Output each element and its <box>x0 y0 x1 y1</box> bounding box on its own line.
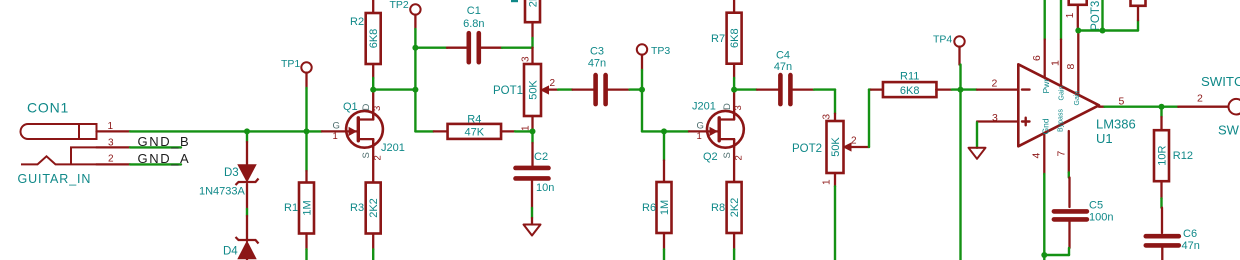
wire C5 top lead (pin lead) <box>1068 178 1070 208</box>
wire U1 pin1 (pin lead) <box>1060 40 1062 87</box>
wire C1 right lead (pin lead) <box>481 47 502 49</box>
svg-text:8: 8 <box>1065 64 1077 70</box>
wire wiper riser <box>868 90 870 147</box>
wire Q1 gate pin (pin lead) <box>322 130 358 132</box>
wire R4 row left <box>415 130 433 132</box>
wire R1 bottom lead (pin lead) <box>305 234 307 250</box>
wire Q2 gate pin (pin lead) <box>689 130 719 132</box>
svg-text:C5: C5 <box>1089 200 1103 212</box>
wire C1 right wire <box>502 47 533 49</box>
svg-text:Gnd: Gnd <box>1040 118 1050 134</box>
wire R11 right lead (pin lead) <box>936 88 952 90</box>
wire POT1 pin1 lead (pin lead) <box>531 116 533 131</box>
resistor R6 <box>657 182 672 233</box>
ground GND below C2 <box>524 225 541 236</box>
svg-text:SW1: SW1 <box>1218 123 1240 138</box>
svg-text:1: 1 <box>1050 60 1062 66</box>
minus symbol of U1 <box>1022 88 1030 90</box>
node POT3 node (junction) <box>1075 28 1081 34</box>
wire C6 top lead (pin lead) <box>1161 208 1163 233</box>
wire output wire <box>1105 105 1179 107</box>
svg-text:R11: R11 <box>900 71 919 83</box>
svg-text:2: 2 <box>851 136 857 147</box>
wire R1 bottom wire <box>305 249 307 260</box>
wire CON1 pin1 lead (pin lead) <box>97 130 131 132</box>
wire U1 pin7 (pin lead) <box>1068 131 1070 173</box>
wire node to R13 column <box>1103 29 1139 31</box>
wire R13 riser <box>1137 20 1139 30</box>
wire D3-D4 link <box>246 209 248 216</box>
wire R5 bottom lead (pin lead) <box>531 22 533 38</box>
wire Q1 source to R3 (pin lead) <box>372 139 374 182</box>
wire R2 bottom lead (pin lead) <box>372 64 374 78</box>
wire TP2 pin (pin lead) <box>414 15 416 29</box>
svg-text:2: 2 <box>108 154 114 165</box>
wire D4 bottom lead (pin lead) <box>246 258 248 260</box>
wire R4 left lead (pin lead) <box>434 130 448 132</box>
wire C1 left wire <box>415 47 447 49</box>
svg-text:47K: 47K <box>465 127 485 139</box>
wire Q1 drain lead (pin lead) <box>372 90 374 120</box>
svg-text:POT3: POT3 <box>1090 1 1102 31</box>
potentiometer POT2 <box>827 121 852 173</box>
svg-text:2: 2 <box>550 78 556 89</box>
svg-text:2: 2 <box>1197 93 1203 105</box>
svg-text:POT1: POT1 <box>493 85 523 97</box>
wire U1 pin4 (pin lead) <box>1043 133 1045 174</box>
wire R6 bottom wire <box>663 249 665 260</box>
wire C2 bottom lead (pin lead) <box>531 181 533 208</box>
svg-text:Pwr: Pwr <box>1041 79 1051 94</box>
label R5 fragment <box>511 0 518 2</box>
resistor R11 <box>883 82 937 97</box>
wire SW1 pin lead (pin lead) <box>1178 106 1228 108</box>
svg-text:Q2: Q2 <box>703 151 718 163</box>
wire POT2 wiper lead (pin lead) <box>851 146 870 148</box>
wire TP3 to node <box>641 70 643 90</box>
svg-text:47n: 47n <box>774 61 792 73</box>
svg-text:Gain: Gain <box>1074 91 1081 106</box>
wire POT2 pin3 lead (pin lead) <box>834 114 836 121</box>
wire net GND_A stub <box>130 163 181 165</box>
wire R12 top lead (pin lead) <box>1160 117 1162 130</box>
wire POT3 pin1 lead (pin lead) <box>1077 5 1079 28</box>
wire input row to R1 <box>305 131 307 171</box>
wire POT1 wiper wire <box>558 88 573 90</box>
wire R6 bottom lead (pin lead) <box>663 233 665 249</box>
wire R6 top wire <box>663 131 665 160</box>
wire Vs wire (pin6) <box>1043 0 1045 40</box>
svg-text:Bypass: Bypass <box>1058 109 1065 132</box>
capacitor C6 <box>1146 236 1179 245</box>
wire C4 left lead (pin lead) <box>757 88 778 90</box>
svg-text:R8: R8 <box>711 202 725 214</box>
wire TP2 column mid <box>414 48 416 90</box>
svg-text:47n: 47n <box>1182 240 1200 252</box>
capacitor C3 <box>596 75 606 104</box>
wire Q2 drain lead (pin lead) <box>733 90 735 120</box>
connector CON1 (audio jack) <box>21 124 97 164</box>
wire R8 bottom wire <box>733 249 735 260</box>
wire U1 pin8 (pin lead) <box>1077 31 1079 95</box>
svg-text:POT2: POT2 <box>792 143 822 155</box>
svg-text:G: G <box>333 121 340 132</box>
capacitor C4 <box>780 75 790 104</box>
wire POT1 bottom to C2 <box>531 131 533 143</box>
wire TP2 to C1 row <box>414 29 416 48</box>
svg-text:Q1: Q1 <box>343 101 358 113</box>
svg-text:R7: R7 <box>711 33 725 45</box>
wire C3 right lead (pin lead) <box>608 88 630 90</box>
wire C4 right wire <box>814 88 835 90</box>
svg-text:47n: 47n <box>588 58 606 70</box>
ground GND at U1 plus input <box>969 148 986 159</box>
node POT1 bottom node (junction) <box>530 128 536 134</box>
wire Q2 gate row <box>664 130 689 132</box>
wire TP4 to node <box>959 65 961 90</box>
svg-text:G: G <box>697 121 704 132</box>
svg-text:R3: R3 <box>350 202 364 214</box>
svg-text:GND_A: GND_A <box>138 151 191 166</box>
wire C4 left wire <box>734 88 757 90</box>
svg-text:50K: 50K <box>830 137 842 157</box>
svg-text:R12: R12 <box>1173 150 1193 162</box>
svg-text:D: D <box>361 104 372 111</box>
svg-text:C1: C1 <box>467 5 481 17</box>
wire U1 output pin (pin lead) <box>1099 106 1105 108</box>
wire D3-D4 link lower (pin lead) <box>246 216 248 241</box>
wire TP4 pin (pin lead) <box>958 47 960 65</box>
capacitor C5 <box>1054 211 1087 219</box>
wire C3 left lead (pin lead) <box>573 88 594 90</box>
svg-text:TP2: TP2 <box>390 0 409 11</box>
node TP2 column at drain row (junction) <box>412 87 418 93</box>
svg-text:J201: J201 <box>692 101 716 113</box>
wire C4 right lead (pin lead) <box>793 88 814 90</box>
node R6 tap (junction) <box>661 128 667 134</box>
svg-text:C6: C6 <box>1183 228 1197 240</box>
svg-text:R4: R4 <box>467 114 481 126</box>
wire R4 right lead (pin lead) <box>501 130 515 132</box>
wire POT2 top wire <box>834 90 836 114</box>
resistor R13 (cut off) <box>1131 0 1146 6</box>
svg-text:1: 1 <box>1065 12 1076 18</box>
svg-text:CON1: CON1 <box>27 100 69 116</box>
wire POT1 wiper lead (pin lead) <box>548 88 558 90</box>
wire POT2 pin1 lead (pin lead) <box>834 173 836 186</box>
wire C2 to ground <box>531 208 533 218</box>
wire POT3 node to wiper column <box>1078 29 1102 31</box>
node output node (junction) <box>1159 104 1165 110</box>
wire R3 bottom lead (pin lead) <box>372 234 374 250</box>
wire R7 top lead (pin lead) <box>733 0 735 13</box>
wire bottom rail <box>1044 254 1069 256</box>
connector SW1 pin circle <box>1229 99 1240 115</box>
svg-text:LM386: LM386 <box>1096 116 1136 131</box>
svg-text:1M: 1M <box>659 200 671 215</box>
wire D3 top stub <box>246 131 248 142</box>
op-amp U1 (LM386) body <box>1018 64 1099 146</box>
wire TP2 column low <box>414 90 416 132</box>
svg-text:D: D <box>722 103 733 110</box>
capacitor C2 <box>516 168 549 179</box>
svg-text:S: S <box>361 152 372 158</box>
wire R7 to drain node <box>733 78 735 90</box>
wire bottom rail drop <box>1043 255 1045 260</box>
wire U1 plus pin (pin lead) <box>977 120 1018 122</box>
wire CON1 pin2 lead (pin lead) <box>97 163 131 165</box>
wire TP1 to input row <box>305 88 307 131</box>
node TP3 node (junction) <box>639 87 645 93</box>
wire R11 left lead (pin lead) <box>871 88 883 90</box>
wire D3 anode lead (pin lead) <box>246 142 248 165</box>
wire Q2 source to R8 (pin lead) <box>733 139 735 182</box>
test point TP2 <box>410 4 420 14</box>
svg-text:1M: 1M <box>301 200 313 215</box>
svg-text:6K8: 6K8 <box>729 28 741 48</box>
wire C6 bottom lead (pin lead) <box>1161 248 1163 260</box>
transistor Q2 (J201 JFET) <box>707 111 744 148</box>
svg-text:50K: 50K <box>527 80 539 100</box>
wire C5 bottom lead (pin lead) <box>1068 222 1070 249</box>
svg-text:1: 1 <box>520 125 531 131</box>
svg-text:100n: 100n <box>1089 212 1113 224</box>
resistor R8 <box>727 182 742 233</box>
svg-text:C2: C2 <box>534 151 548 163</box>
svg-text:4: 4 <box>1031 153 1043 159</box>
wire input row CON1 to Q1 gate <box>130 130 322 132</box>
wire R12 to C6 <box>1160 199 1162 208</box>
svg-text:TP4: TP4 <box>933 34 952 46</box>
zener diode D4 <box>236 237 259 259</box>
svg-text:6K8: 6K8 <box>368 29 380 49</box>
wire wiper column up <box>1101 0 1103 31</box>
svg-text:D4: D4 <box>223 246 238 258</box>
svg-text:SWITCH: SWITCH <box>1201 74 1240 89</box>
svg-text:3: 3 <box>520 56 531 62</box>
resistor R3 <box>366 183 381 234</box>
wire R5 to POT1 node <box>531 38 533 48</box>
svg-text:Gain: Gain <box>1059 86 1066 101</box>
wire C5 to rail <box>1068 248 1070 255</box>
svg-text:TP3: TP3 <box>651 45 670 57</box>
wire POT2 bottom wire <box>834 186 836 260</box>
wire TP3 pin (pin lead) <box>641 55 643 70</box>
wire R11 to TP4 node <box>952 88 961 90</box>
wire TP3 node down <box>641 90 643 132</box>
node bottom rail corner (junction) <box>1041 252 1047 258</box>
wire U1 minus pin (pin lead) <box>977 88 1018 90</box>
node TP1/R1 tap (junction) <box>304 128 310 134</box>
potentiometer POT3 (cut off) <box>1069 0 1087 5</box>
wire C3 to TP3 node <box>630 88 643 90</box>
svg-text:J201: J201 <box>381 142 405 154</box>
potentiometer POT1 <box>524 64 549 116</box>
wire output to R12 <box>1160 107 1162 117</box>
wire D3-D4 link upper (pin lead) <box>246 184 248 209</box>
resistor R5 (cut off) <box>525 0 540 22</box>
svg-text:7: 7 <box>1055 151 1067 157</box>
wire riser to R11 <box>869 88 871 90</box>
wire R2 top lead (pin lead) <box>372 0 374 13</box>
wire node to minus input <box>961 88 978 90</box>
wire pin4 wire down <box>1043 174 1045 255</box>
wire R12 bottom lead (pin lead) <box>1160 181 1162 198</box>
svg-text:U1: U1 <box>1096 131 1113 146</box>
node TP4 node (junction) <box>958 87 964 93</box>
test point TP3 <box>637 44 647 54</box>
plus symbol of U1 <box>1022 118 1030 126</box>
svg-text:2K: 2K <box>527 0 539 7</box>
node Q2 drain node (junction) <box>731 87 737 93</box>
wire R1 top lead (pin lead) <box>305 171 307 183</box>
svg-text:R2: R2 <box>350 16 364 28</box>
svg-text:6K8: 6K8 <box>900 85 920 97</box>
svg-text:D3: D3 <box>224 167 239 179</box>
wire R7 bottom lead (pin lead) <box>733 64 735 78</box>
wire TP1 pin (pin lead) <box>305 73 307 88</box>
wire ground stub (pin lead) <box>531 218 533 225</box>
resistor R2 <box>366 13 381 64</box>
svg-text:2K2: 2K2 <box>368 198 380 218</box>
wire TP4 column down <box>959 90 961 260</box>
test point TP4 <box>954 36 964 46</box>
svg-text:1N4733A: 1N4733A <box>199 186 246 198</box>
svg-text:1: 1 <box>697 131 702 142</box>
svg-text:GND_B: GND_B <box>138 134 191 149</box>
svg-text:GUITAR_IN: GUITAR_IN <box>18 172 92 186</box>
wire gain wire (pin1) <box>1060 0 1062 40</box>
wire R8 bottom lead (pin lead) <box>733 233 735 249</box>
node C1 row tap (junction) <box>412 45 418 51</box>
node D3 tap (junction) <box>244 128 250 134</box>
resistor R4 <box>448 124 502 139</box>
wire Q2 gate row left <box>642 130 664 132</box>
zener diode D3 <box>236 165 259 185</box>
svg-text:10n: 10n <box>536 182 554 194</box>
svg-text:2: 2 <box>992 78 998 90</box>
wire plus to ground <box>976 123 978 148</box>
wire R3 bottom wire <box>372 249 374 260</box>
transistor Q1 (J201 JFET) <box>346 111 383 148</box>
wire drain node to TP2 column <box>373 88 415 90</box>
svg-text:6: 6 <box>1031 55 1043 61</box>
wire R13 bottom lead (pin lead) <box>1137 6 1139 20</box>
wire R6 top lead (pin lead) <box>663 161 665 183</box>
svg-text:TP1: TP1 <box>281 58 300 70</box>
svg-text:R1: R1 <box>284 202 298 214</box>
wire net GND_B stub <box>130 146 181 148</box>
resistor R1 <box>299 183 314 234</box>
capacitor C1 <box>469 33 479 62</box>
svg-text:3: 3 <box>822 114 833 120</box>
svg-text:R6: R6 <box>642 202 656 214</box>
wire POT1 pin3 lead (pin lead) <box>531 48 533 64</box>
svg-text:C4: C4 <box>776 50 790 62</box>
wire CON1 pin3 lead (pin lead) <box>97 146 131 148</box>
wire C2 top lead (pin lead) <box>531 143 533 166</box>
svg-text:10R: 10R <box>1156 146 1168 166</box>
node Q1 drain node (junction) <box>370 87 376 93</box>
resistor R12 <box>1154 130 1169 181</box>
wire U1 pin6 (pin lead) <box>1044 40 1046 78</box>
test point TP1 <box>301 62 311 72</box>
resistor R7 <box>727 13 742 64</box>
wire R2 to drain node <box>372 78 374 90</box>
svg-text:1: 1 <box>333 131 338 142</box>
svg-text:1: 1 <box>822 179 833 185</box>
wire C1 left lead (pin lead) <box>447 47 466 49</box>
svg-text:S: S <box>722 152 733 158</box>
svg-text:C3: C3 <box>590 46 604 58</box>
svg-text:2K2: 2K2 <box>729 198 741 218</box>
wire pin7 to C5 <box>1068 173 1070 178</box>
svg-text:6.8n: 6.8n <box>463 18 484 30</box>
wire R4 to POT1 bottom <box>515 130 533 132</box>
node wiper column node (junction) <box>1100 28 1106 34</box>
